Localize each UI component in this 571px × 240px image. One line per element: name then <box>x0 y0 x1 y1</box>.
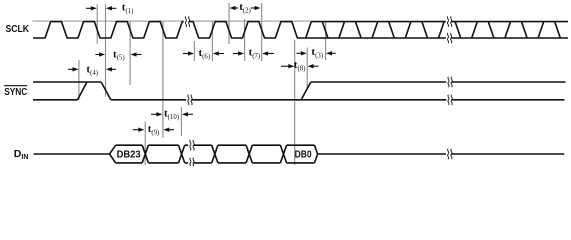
wire SCLK edge slant 11 right section <box>472 22 478 38</box>
wire SCLK edge slant 8 right section <box>422 22 428 38</box>
node break mark DIN line right <box>446 149 451 159</box>
node t2 left arrow (outward) <box>235 7 238 9</box>
svg-text:DB0: DB0 <box>295 148 312 160</box>
node cursor t5 right <box>129 21 131 85</box>
wire DIN bus closing slants <box>315 145 318 163</box>
wire SCLK edge slant 2 right section <box>322 22 328 38</box>
wire SCLK edge slant 7 right section <box>405 22 411 38</box>
svg-text:DB23: DB23 <box>117 148 141 160</box>
wire SYNC rising edge end of frame <box>301 82 311 100</box>
node t10 left arrow <box>151 113 157 115</box>
wire DIN bus rails segment 3 <box>185 144 212 146</box>
node cursor t1 right / t4 right / t5 left <box>105 4 107 97</box>
node cursor t4 left <box>78 60 80 100</box>
node DIN bit crossover 5 <box>280 145 286 163</box>
node cursor t8 left <box>294 40 296 165</box>
node t5 right arrow <box>136 54 142 56</box>
node break mark SYNC low right <box>446 95 451 105</box>
wire SCLK edge slant 4 right section <box>356 22 362 38</box>
node DIN bit crossover 4 <box>246 145 252 163</box>
node cursor t6 right <box>211 21 213 61</box>
node t1 right arrow <box>111 7 116 9</box>
node cursor t1 left <box>96 4 98 44</box>
node t1 left arrow <box>86 7 92 9</box>
node t10 right arrow <box>187 113 193 115</box>
wire SCLK continuous high rail right section <box>311 21 568 23</box>
node t3 right arrow <box>331 52 336 54</box>
wire SCLK edge slant 1 right section <box>306 22 312 38</box>
wire SCLK edge slant 6 right section <box>389 22 395 38</box>
svg-text:SCLK: SCLK <box>6 23 30 35</box>
node cursor t7 left <box>244 19 246 61</box>
wire DIN bus rails segment 4 <box>218 144 246 146</box>
svg-text:SYNC: SYNC <box>4 86 27 98</box>
node DIN bit crossover 1 <box>142 145 148 163</box>
wire DIN bus rails segment 2 <box>148 144 178 146</box>
wire DIN bus rails segment 5 <box>252 144 280 146</box>
node break mark SCLK top right <box>446 16 451 26</box>
node DIN bit crossover 2 <box>179 145 185 163</box>
node break mark DIN bottom rail mid-frame <box>188 158 193 168</box>
wire SCLK edge slant 3 right section <box>339 22 345 38</box>
node break mark SCLK top mid-frame <box>184 16 189 26</box>
node t3 left arrow <box>297 52 302 54</box>
node break mark DIN top rail mid-frame <box>188 140 193 150</box>
wire SCLK edge slant 13 right section <box>505 22 511 38</box>
node break mark SYNC high right <box>446 77 451 87</box>
wire SCLK edge slant 14 right section <box>522 22 528 38</box>
node t6 left arrow <box>183 53 189 55</box>
wire DIN bus rails segment 1 <box>116 144 143 146</box>
node t9 left arrow <box>133 129 139 131</box>
wire SCLK waveform left section <box>33 22 568 38</box>
wire SYNC falling edge <box>101 82 111 100</box>
wire DIN idle line left <box>34 153 110 155</box>
node t8 left arrow <box>281 65 289 67</box>
node t4 right arrow <box>111 68 116 70</box>
wire SCLK edge slant 9 right section <box>439 22 445 38</box>
wire SYNC low span <box>111 99 565 101</box>
node t7 left arrow <box>233 53 239 55</box>
wire SYNC high rail right <box>311 81 566 83</box>
wire SCLK edge slant 12 right section <box>488 22 494 38</box>
node break mark SYNC low mid-frame <box>186 95 191 105</box>
wire SYNC high rail left <box>33 81 101 83</box>
wire SCLK edge slant 5 right section <box>372 22 378 38</box>
wire SCLK edge slant 15 right section <box>538 22 544 38</box>
node cursor t2 right / t7 right <box>261 3 263 61</box>
node cursor t3 right <box>325 21 327 60</box>
node t5 left arrow <box>95 54 100 56</box>
node cursor t8 right / t3 left <box>306 48 308 89</box>
node cursor t10 right <box>180 107 182 136</box>
node cursor t6 left <box>193 41 195 61</box>
node t6 right arrow <box>218 53 224 55</box>
node DIN bit crossover 3 <box>212 145 218 163</box>
wire SYNC low rail left <box>33 99 78 101</box>
node t8 right arrow <box>313 65 319 67</box>
node t4 left arrow <box>68 68 73 70</box>
wire SYNC rising edge (pulse) <box>78 82 88 100</box>
node t2 right arrow (outward) <box>251 7 255 9</box>
node break mark SCLK bottom right <box>446 33 451 43</box>
node t7 right arrow <box>267 53 274 55</box>
node cursor t2 left <box>228 3 230 44</box>
wire SCLK edge slant 16 right section <box>555 22 561 38</box>
wire SCLK edge slant 10 right section <box>455 22 461 38</box>
node SCLK high reference rail (gray guide) <box>33 20 312 22</box>
node cursor t9 right / t10 left <box>162 21 164 138</box>
wire DIN idle line right <box>318 153 565 155</box>
wire DIN bus opening slants <box>110 145 116 163</box>
node cursor t9 left <box>144 122 146 166</box>
node t9 right arrow <box>169 129 175 131</box>
wire DIN bus rails segment 6 <box>287 144 315 146</box>
